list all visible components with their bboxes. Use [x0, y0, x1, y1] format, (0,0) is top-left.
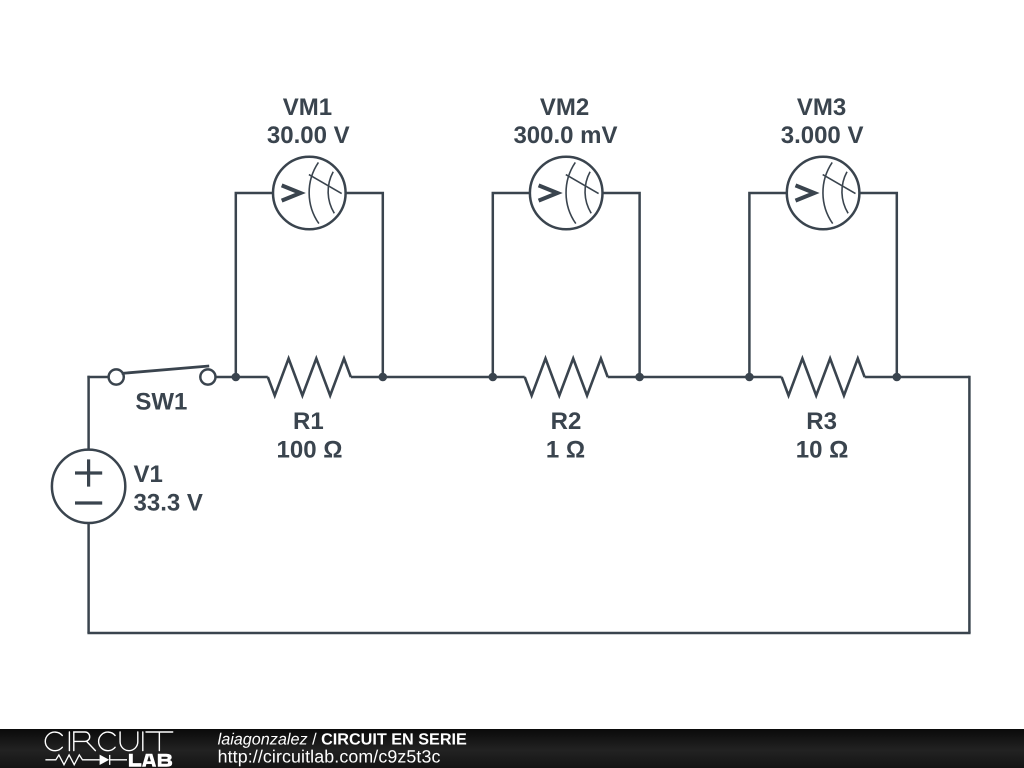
- wire: top-left corner horizontal to SW1 left terminal: [87, 376, 109, 379]
- wire: VM3 right loop: [859, 193, 897, 377]
- node: junction R1/VM1 right: [379, 373, 388, 382]
- wire: VM3 left loop: [749, 193, 787, 377]
- wire: bottom rail: [87, 632, 970, 635]
- logo resistor-diode art: [45, 755, 127, 765]
- wire: left branch vertical from top corner to V1 top: [87, 376, 90, 450]
- svg-text:http://circuitlab.com/c9z5t3c: http://circuitlab.com/c9z5t3c: [218, 746, 441, 766]
- voltmeter VM1: [273, 157, 346, 230]
- wire: R3 right lead to right edge: [865, 376, 970, 379]
- logo text CIRCUIT (thin stroke letters): [45, 732, 172, 751]
- wire: SW1 right terminal to R1 left lead: [215, 376, 268, 379]
- node: junction R3/VM3 right: [893, 373, 902, 382]
- switch SW1: [109, 366, 216, 385]
- footer bar: [0, 729, 1024, 768]
- resistor R1: [268, 359, 351, 396]
- logo text LAB: [129, 754, 172, 767]
- resistor R2: [525, 359, 608, 396]
- wire: V1 bottom to bottom rail: [87, 523, 90, 633]
- resistor R3: [782, 359, 865, 396]
- voltmeter VM3: [787, 157, 860, 230]
- node: junction R2/VM2 right: [635, 373, 644, 382]
- wire: right vertical edge: [968, 376, 971, 633]
- wire: VM2 right loop: [602, 193, 639, 377]
- wire: R1 right lead to R2 left lead: [351, 376, 525, 379]
- wire: VM2 left loop: [493, 193, 530, 377]
- voltage source V1: [52, 450, 125, 523]
- node: junction VM3 left/R3: [745, 373, 754, 382]
- voltmeter VM2: [530, 157, 603, 230]
- wire: VM1 right loop: [345, 193, 382, 377]
- wire: R2 right lead to R3 left lead: [608, 376, 782, 379]
- node: junction VM2 left/R2: [489, 373, 498, 382]
- wire: VM1 left loop: [236, 193, 273, 377]
- node: junction SW1/VM1/R1: [232, 373, 241, 382]
